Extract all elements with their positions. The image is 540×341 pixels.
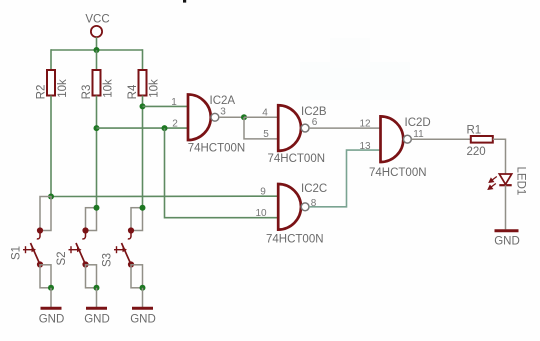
svg-text:10k: 10k [149, 79, 161, 98]
node R2 / S1 / pin9 [48, 194, 54, 200]
svg-text:S1: S1 [11, 246, 23, 260]
wire R2 to bottom bus [50, 96, 52, 197]
wire IC2A pin3 to junction [219, 116, 244, 118]
node S3 top junction [140, 205, 146, 211]
switch S3 moving contact (bottom) [128, 261, 134, 267]
switch S3 lever [122, 243, 132, 265]
NAND gate IC2B [278, 105, 301, 151]
NAND gate IC2C [278, 184, 301, 230]
svg-text:13: 13 [359, 141, 371, 152]
svg-text:S2: S2 [56, 251, 68, 265]
svg-text:GND: GND [84, 314, 110, 326]
wire to IC2B pin 5 [244, 117, 278, 139]
svg-text:10k: 10k [57, 79, 69, 98]
ground symbol under S2 [86, 307, 107, 310]
node: junction below switch S1 [48, 285, 54, 291]
wire VCC to bus [96, 37, 98, 50]
wire: VCC bus [51, 49, 143, 51]
switch S1 fixed contact (top) [37, 227, 43, 233]
VCC supply symbol [91, 26, 102, 37]
switch S2 fixed contact (top) [82, 227, 88, 233]
svg-text:R4: R4 [127, 84, 139, 99]
svg-text:3: 3 [220, 106, 226, 117]
svg-text:12: 12 [359, 118, 371, 129]
wire bus to R2 [50, 49, 52, 70]
switch S2 lever [76, 243, 86, 265]
resistor R2 [47, 70, 55, 96]
wire: loop from junction to switch S2 top contact [86, 208, 97, 231]
svg-text:LED1: LED1 [515, 167, 527, 196]
switch S3 fixed contact (top) [128, 227, 134, 233]
wire bottom bus R2 node to IC2C pin 9 [51, 195, 278, 197]
wire: loop from switch S1 bottom contact to ground column [40, 265, 51, 288]
wire R1 to LED [493, 139, 506, 174]
wire to ground [142, 288, 144, 308]
svg-text:GND: GND [494, 236, 520, 248]
svg-text:74HCT00N: 74HCT00N [369, 167, 427, 179]
wire bus to R4 [142, 49, 144, 70]
ground symbol under S1 [41, 307, 62, 310]
svg-text:9: 9 [260, 186, 266, 197]
svg-text:220: 220 [467, 146, 486, 158]
wire to IC2B pin 4 [244, 116, 278, 118]
node S2 top junction [94, 205, 100, 211]
switch S2 actuator [70, 246, 72, 253]
wire to IC2A pin 2 [97, 127, 189, 129]
svg-text:R2: R2 [35, 85, 47, 100]
svg-text:IC2A: IC2A [210, 95, 236, 107]
wire: loop from junction to switch S3 top contact [131, 208, 143, 231]
svg-text:11: 11 [413, 129, 424, 140]
ground symbol under LED1 [495, 229, 519, 232]
wire: loop from switch S2 bottom contact to ground column [86, 265, 97, 288]
switch S3 actuator [116, 246, 118, 253]
svg-text:74HCT00N: 74HCT00N [268, 153, 326, 165]
svg-text:6: 6 [312, 117, 318, 128]
node: junction below switch S3 [140, 285, 146, 291]
node on VCC bus [94, 47, 100, 53]
svg-text:10: 10 [255, 208, 267, 219]
node pin3/4/5 [241, 114, 247, 120]
svg-text:1: 1 [171, 97, 177, 108]
resistor R4 [139, 70, 147, 96]
switch S1 moving contact (bottom) [37, 261, 43, 267]
wire branch down toward IC2C pin 10 [165, 128, 279, 218]
wire IC2B pin6 to IC2D pin 12 [309, 127, 381, 129]
resistor R3 [93, 70, 101, 96]
svg-text:IC2C: IC2C [301, 183, 327, 195]
wire to ground [50, 288, 52, 308]
LED LED1 [499, 174, 511, 184]
svg-text:GND: GND [39, 314, 65, 326]
node R4 / pin1 [140, 103, 146, 109]
svg-text:5: 5 [263, 129, 269, 140]
wire IC2C pin8 up to IC2D pin 13 [309, 150, 381, 207]
switch S2 moving contact (bottom) [82, 261, 88, 267]
LED arrows [488, 177, 497, 190]
svg-text:S3: S3 [102, 253, 114, 267]
cropped text fragment at top [183, 0, 186, 3]
wire: loop from switch S3 bottom contact to ground column [131, 265, 143, 288]
wire R3 down to switch S2 [96, 96, 98, 208]
wire: loop from junction to switch S1 top contact [40, 197, 51, 231]
wire LED to GND [505, 185, 507, 229]
wire bus to R3 [96, 50, 98, 70]
svg-text:IC2B: IC2B [301, 106, 327, 118]
wire to IC2A pin 1 [143, 105, 189, 107]
svg-text:IC2D: IC2D [405, 117, 431, 129]
node R3 / pin2 bus [94, 125, 100, 131]
svg-text:VCC: VCC [85, 14, 109, 26]
svg-text:74HCT00N: 74HCT00N [266, 233, 324, 245]
ground symbol under S3 [132, 307, 153, 310]
svg-text:10k: 10k [103, 79, 115, 98]
svg-text:GND: GND [130, 314, 156, 326]
switch S1 actuator [25, 246, 27, 253]
op-amp style NAND gate IC2A [188, 94, 211, 140]
svg-text:R1: R1 [467, 125, 482, 137]
svg-text:R3: R3 [81, 85, 93, 100]
svg-text:4: 4 [262, 107, 268, 118]
switch S1 lever [31, 243, 41, 265]
svg-text:2: 2 [172, 118, 178, 129]
NAND gate IC2D [381, 116, 404, 162]
faint watermark blobs [300, 62, 410, 100]
wire to ground [96, 288, 98, 308]
svg-text:74HCT00N: 74HCT00N [188, 142, 246, 154]
wire IC2D pin11 to R1 [411, 138, 470, 140]
node pin2 / pin10 branch [162, 125, 168, 131]
wire R4 down to switch S3 [142, 96, 144, 208]
node: junction below switch S2 [94, 285, 100, 291]
